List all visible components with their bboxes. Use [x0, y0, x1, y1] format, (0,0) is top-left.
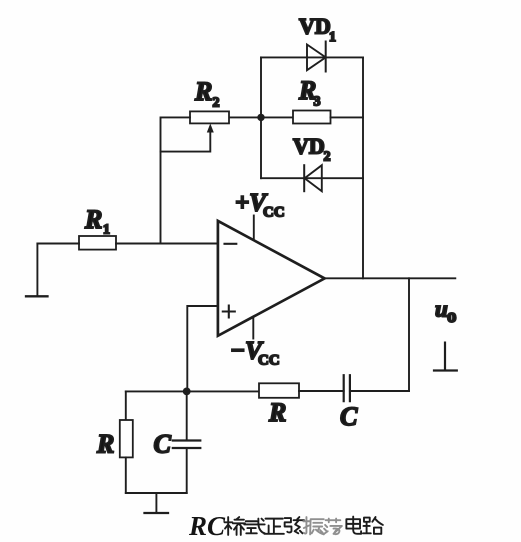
svg-text:R: R: [268, 398, 286, 427]
caption char dang: [324, 519, 342, 535]
svg-text:1: 1: [103, 223, 110, 238]
svg-text:C: C: [154, 430, 172, 459]
caption char qiao: [225, 517, 245, 535]
wire top branch VD1: [261, 56, 363, 58]
capacitor C feedback: [344, 375, 350, 401]
wire ground stub bottom: [155, 493, 157, 513]
resistor R feedback: [259, 383, 299, 398]
node junction dot: [257, 114, 264, 121]
svg-text:2: 2: [213, 96, 220, 111]
wire middle branch right: [331, 116, 364, 118]
diode VD1: [307, 42, 326, 72]
wire R2 left lead: [161, 117, 191, 243]
wire R vertical top lead: [125, 391, 127, 420]
wire RC network bottom: [126, 492, 187, 494]
wire +Vcc stub: [253, 216, 255, 241]
wire output drop to feedback: [408, 278, 410, 391]
wire feedback middle: [299, 390, 344, 392]
svg-text:1: 1: [329, 30, 336, 45]
wire feedback right: [350, 390, 409, 392]
op-amp U1: [218, 221, 325, 336]
op-amp plus sign: [223, 306, 235, 318]
wire middle branch left: [229, 116, 293, 118]
wire RC network top: [126, 390, 187, 392]
wire -Vcc stub: [252, 318, 254, 339]
caption char shi: [244, 519, 264, 534]
ground bottom: [145, 512, 169, 514]
svg-text:3: 3: [314, 95, 321, 110]
svg-text:RC: RC: [188, 511, 226, 541]
svg-text:o: o: [447, 306, 457, 327]
diode VD2: [304, 165, 322, 191]
wire ground drop left: [36, 244, 38, 297]
wiper arrowhead: [207, 124, 214, 133]
wire left rail of diode network: [260, 57, 262, 178]
svg-text:VD: VD: [299, 14, 331, 39]
svg-text:VD: VD: [293, 134, 325, 159]
caption char lu: [363, 517, 383, 534]
wire R2 wiper: [161, 128, 211, 152]
potentiometer R2: [190, 111, 229, 123]
caption char zhen: [303, 517, 323, 534]
op-amp minus sign: [225, 243, 237, 245]
capacitor C vertical: [173, 441, 201, 449]
caption char dian: [346, 517, 361, 534]
caption RC bridge oscillator: [188, 511, 383, 541]
ground output reference: [434, 343, 457, 371]
svg-text:R: R: [96, 430, 114, 459]
caption char xian: [285, 517, 304, 533]
svg-text:R: R: [194, 77, 212, 106]
svg-text:C: C: [340, 402, 358, 431]
svg-text:2: 2: [324, 150, 331, 165]
wire bottom branch VD2: [261, 177, 363, 179]
wire op-amp output: [325, 277, 456, 279]
node junction dot bottom: [183, 388, 191, 396]
caption char zheng: [264, 519, 283, 534]
svg-text:CC: CC: [263, 205, 285, 221]
ground left: [26, 295, 48, 297]
resistor R vertical: [120, 420, 133, 457]
resistor R3: [293, 111, 331, 124]
wire C vertical top lead: [186, 391, 188, 440]
wire R1 to inverting input: [116, 243, 218, 245]
resistor R1: [79, 236, 116, 250]
svg-text:R: R: [84, 205, 102, 234]
wire C vertical bottom lead: [186, 448, 188, 493]
wire non-inverting input: [187, 306, 218, 392]
wire right rail of diode network: [362, 57, 364, 278]
svg-text:CC: CC: [258, 353, 280, 369]
wire R vertical bottom lead: [125, 457, 127, 493]
wire input left lead: [37, 243, 79, 245]
wire feedback bottom left: [187, 390, 259, 392]
